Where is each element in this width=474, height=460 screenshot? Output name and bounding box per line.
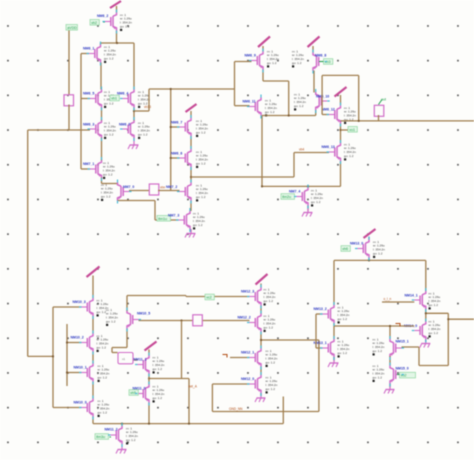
- svg-text:NM6_0: NM6_0: [119, 123, 130, 127]
- svg-text:go: 1.2: go: 1.2: [429, 303, 439, 307]
- wire: [129, 190, 149, 192]
- wire: [112, 352, 118, 354]
- wire: [212, 411, 319, 413]
- svg-text:vc2: vc2: [206, 296, 212, 300]
- net label net vc: [205, 294, 214, 300]
- wire: [118, 200, 156, 202]
- svg-text:go: 1.2: go: 1.2: [196, 195, 206, 199]
- wire: [212, 383, 249, 385]
- transistor NM13_2: [314, 305, 350, 324]
- wire: [67, 372, 82, 374]
- wire: [134, 359, 138, 361]
- net label out pin: [379, 98, 387, 105]
- transistor NM6_2: [97, 13, 132, 32]
- wire: [318, 340, 320, 412]
- svg-text:NM6_12: NM6_12: [322, 108, 335, 112]
- svg-text:NM6_1: NM6_1: [83, 47, 94, 51]
- wire: [191, 176, 294, 178]
- svg-text:NM7_4: NM7_4: [289, 190, 300, 194]
- wire: [116, 31, 118, 44]
- wire: [262, 185, 341, 187]
- wire: [307, 206, 309, 211]
- svg-text:GND_NN: GND_NN: [229, 407, 243, 411]
- wire: [101, 42, 135, 44]
- wire: [334, 325, 414, 327]
- svg-text:vb6: vb6: [342, 247, 348, 251]
- wire junction: [260, 339, 262, 341]
- wire: [171, 126, 180, 128]
- wire: [234, 62, 236, 106]
- wire: [260, 306, 262, 315]
- net label ibn3: [95, 434, 111, 440]
- wire: [263, 80, 289, 82]
- wire junction: [425, 312, 427, 314]
- wire: [111, 348, 113, 353]
- wire: [92, 352, 94, 364]
- wire: [340, 124, 342, 144]
- wire: [67, 342, 82, 344]
- power symbol vdd M3: [258, 37, 270, 52]
- wire: [230, 357, 250, 359]
- svg-text:go: 1.2: go: 1.2: [264, 326, 274, 330]
- net label vbp: [319, 59, 333, 65]
- svg-text:go: 1.2: go: 1.2: [97, 346, 107, 350]
- svg-text:NM12_0: NM12_0: [241, 377, 254, 381]
- wire junction: [288, 114, 290, 116]
- wire: [260, 367, 262, 376]
- svg-text:NM13_0: NM13_0: [350, 242, 363, 246]
- wire: [81, 168, 90, 170]
- wire: [315, 110, 317, 116]
- svg-text:go: 1.2: go: 1.2: [196, 162, 206, 166]
- svg-text:go: 1.2: go: 1.2: [98, 411, 108, 415]
- wire: [81, 98, 90, 100]
- svg-text:go: 1.2: go: 1.2: [264, 299, 274, 303]
- wire: [52, 307, 54, 408]
- svg-text:go: 1.2: go: 1.2: [292, 61, 302, 65]
- wire: [190, 167, 192, 183]
- wire: [425, 340, 427, 342]
- transistor NM6_12: [322, 106, 357, 125]
- svg-text:go: 1.2: go: 1.2: [311, 200, 321, 204]
- wire junction: [121, 423, 123, 425]
- wire: [358, 75, 360, 121]
- wire: [448, 318, 474, 320]
- wire: [447, 313, 449, 365]
- svg-text:NM6_9: NM6_9: [245, 54, 256, 58]
- svg-text:go: 1.2: go: 1.2: [373, 252, 383, 256]
- svg-text:go: 1.2: go: 1.2: [429, 331, 439, 335]
- wire: [139, 320, 193, 322]
- wire: [322, 74, 359, 76]
- wire: [81, 53, 89, 55]
- wire: [92, 316, 94, 334]
- wire: [148, 403, 150, 424]
- svg-text:ibn2u: ibn2u: [282, 195, 291, 199]
- wire: [235, 105, 250, 107]
- wire junction: [188, 423, 190, 425]
- svg-text:NM10_1: NM10_1: [74, 366, 87, 370]
- svg-text:vb2: vb2: [91, 21, 97, 25]
- transistor NM6_3: [83, 120, 116, 139]
- wire: [186, 296, 250, 298]
- wire: [148, 89, 150, 111]
- wire: [294, 152, 329, 154]
- svg-text:NM11_1: NM11_1: [134, 358, 147, 362]
- wire: [100, 63, 102, 90]
- power symbol vdd M5: [335, 87, 347, 105]
- transistor NM10_2: [71, 334, 109, 353]
- svg-text:go: 1.2: go: 1.2: [101, 195, 111, 199]
- wire: [389, 356, 391, 366]
- wire: [262, 70, 264, 82]
- svg-text:go: 1.2: go: 1.2: [153, 396, 163, 400]
- transistor NM12_3: [241, 287, 276, 305]
- wire junction: [170, 88, 172, 90]
- power symbol vdd M2: [186, 104, 197, 118]
- wire: [190, 201, 192, 212]
- svg-text:go: 1.2: go: 1.2: [126, 438, 136, 442]
- transistor pin stubs: [79, 10, 426, 448]
- transistor NM11_0: [133, 384, 165, 402]
- svg-text:NM13_2: NM13_2: [314, 307, 327, 311]
- wire junction: [190, 176, 192, 178]
- wire: [419, 365, 448, 367]
- wire: [316, 347, 323, 349]
- svg-text:vo1: vo1: [349, 128, 355, 132]
- wire: [321, 75, 323, 114]
- wire: [134, 110, 149, 112]
- wire junction: [66, 371, 68, 373]
- svg-text:go: 1.2: go: 1.2: [338, 317, 348, 321]
- svg-text:NM6_2: NM6_2: [97, 14, 108, 18]
- wire junction: [261, 185, 263, 187]
- wire: [203, 320, 250, 322]
- transistor NM11_2: [105, 426, 139, 445]
- svg-text:NM6_3: NM6_3: [83, 123, 94, 127]
- svg-text:NM10_5: NM10_5: [137, 312, 150, 316]
- wire junction: [447, 318, 449, 320]
- svg-text:NM15_1: NM15_1: [396, 340, 409, 344]
- svg-text:x1: x1: [122, 357, 126, 361]
- svg-text:o_l_n: o_l_n: [384, 297, 392, 301]
- svg-text:NM12_2: NM12_2: [238, 316, 251, 320]
- ground gnd3: [302, 206, 313, 217]
- svg-text:NM7_2: NM7_2: [166, 185, 177, 189]
- transistor NM15_1: [373, 337, 409, 357]
- svg-text:vb1: vb1: [111, 97, 117, 101]
- transistor NM6_6: [171, 149, 208, 168]
- transistor NM15_0: [373, 364, 409, 384]
- wire: [126, 329, 128, 348]
- svg-text:go: 1.2: go: 1.2: [373, 376, 383, 380]
- transistor NM13_1: [314, 339, 350, 358]
- svg-text:go: 1.2: go: 1.2: [265, 110, 275, 114]
- wire: [293, 153, 295, 178]
- wire: [322, 114, 329, 116]
- svg-text:NM12_3: NM12_3: [241, 290, 254, 294]
- transistor NM7_3: [168, 211, 205, 230]
- svg-text:go: 1.2: go: 1.2: [106, 320, 116, 324]
- wire: [170, 89, 172, 191]
- svg-text:go: 1.2: go: 1.2: [104, 102, 114, 106]
- wire: [261, 116, 263, 187]
- svg-text:go: 1.2: go: 1.2: [103, 173, 113, 177]
- wire: [53, 306, 82, 308]
- wire junction: [358, 120, 360, 122]
- wire junction: [170, 126, 172, 128]
- wire: [260, 332, 262, 349]
- transistor NM12_1: [241, 349, 278, 368]
- wire: [68, 31, 70, 95]
- wire: [368, 258, 370, 261]
- wire: [333, 260, 335, 305]
- wire junction: [307, 185, 309, 187]
- wire junction: [368, 259, 370, 261]
- svg-text:NM11_2: NM11_2: [105, 428, 118, 432]
- transistor NM6_5: [83, 90, 116, 109]
- svg-text:go: 1.2: go: 1.2: [104, 133, 114, 137]
- svg-text:NM7_0: NM7_0: [123, 185, 134, 189]
- wire: [27, 130, 29, 356]
- transistor NM14_0: [404, 319, 441, 339]
- ground gnd5: [384, 384, 395, 394]
- net label net vb1: [110, 95, 119, 101]
- transistor NM10_3: [73, 298, 109, 317]
- wire: [261, 339, 319, 341]
- svg-text:NM6_5: NM6_5: [83, 92, 94, 96]
- transistor NM7_0: [101, 183, 134, 202]
- wire junction: [66, 341, 68, 343]
- wire: [235, 61, 252, 63]
- wire junction: [133, 110, 135, 112]
- svg-text:go: 1.2: go: 1.2: [193, 223, 203, 227]
- ground gnd2: [185, 229, 196, 238]
- svg-text:NM10_0: NM10_0: [74, 401, 87, 405]
- transistor NM14_1: [405, 291, 441, 310]
- ground gnd9: [116, 444, 127, 454]
- svg-text:NM6_11: NM6_11: [243, 100, 256, 104]
- power symbol vdd M8: [256, 274, 268, 288]
- wire: [133, 43, 135, 90]
- svg-text:out: out: [381, 98, 386, 102]
- symbol box X1: [118, 353, 133, 364]
- svg-text:go: 1.2: go: 1.2: [338, 351, 348, 355]
- wire: [333, 357, 335, 361]
- wire junction: [389, 325, 391, 327]
- transistor NM6_11: [243, 98, 278, 117]
- transistor NM13_0: [350, 240, 385, 259]
- wire junction: [148, 423, 150, 425]
- svg-text:go: 1.2: go: 1.2: [138, 133, 148, 137]
- wire: [389, 384, 391, 388]
- svg-text:NM10_2: NM10_2: [71, 336, 84, 340]
- symbol S3: [374, 105, 384, 116]
- svg-text:go: 1.2: go: 1.2: [266, 387, 276, 391]
- wire: [190, 136, 192, 149]
- svg-text:go: 1.2: go: 1.2: [120, 25, 130, 29]
- wire: [316, 313, 323, 315]
- net label vb2: [90, 20, 105, 26]
- wire: [92, 417, 94, 424]
- wire: [126, 296, 128, 312]
- ground gnd6: [420, 340, 431, 348]
- wire: [154, 201, 156, 221]
- net label vo2: [397, 372, 416, 378]
- wire junction: [116, 42, 118, 44]
- wire: [307, 186, 309, 187]
- transistor NM12_2: [238, 314, 276, 333]
- wire: [133, 108, 135, 121]
- ground gnd1: [128, 138, 139, 150]
- symbol S2: [193, 315, 203, 326]
- transistor NM7_2: [166, 183, 208, 202]
- wire: [315, 314, 317, 348]
- net label hook1: [223, 355, 228, 358]
- wire: [66, 324, 68, 386]
- wire junction: [339, 129, 341, 131]
- transistor NM11_1: [134, 355, 165, 373]
- wire: [101, 138, 103, 161]
- wire: [418, 347, 420, 366]
- wire: [93, 423, 283, 425]
- svg-text:NM6_7: NM6_7: [171, 121, 182, 125]
- wire: [28, 129, 90, 131]
- wire: [288, 81, 290, 116]
- transistor NM10_1: [74, 364, 110, 383]
- transistor NM6_9: [245, 49, 280, 69]
- wire: [53, 407, 82, 409]
- net label ibn: [157, 216, 171, 222]
- svg-text:vbn: vbn: [160, 186, 165, 190]
- wire: [101, 178, 103, 184]
- svg-text:NM6_8: NM6_8: [315, 54, 326, 58]
- svg-text:go: 1.2: go: 1.2: [98, 376, 108, 380]
- wire: [341, 129, 349, 131]
- svg-text:go: 1.2: go: 1.2: [267, 61, 277, 65]
- svg-text:go: 1.2: go: 1.2: [153, 367, 163, 371]
- symbol S0: [64, 95, 74, 106]
- wire: [341, 120, 474, 122]
- power symbol vdd M9: [364, 229, 376, 240]
- svg-text:NM14_1: NM14_1: [405, 294, 418, 298]
- wire: [260, 393, 262, 396]
- wire: [28, 355, 53, 357]
- wire: [158, 190, 180, 192]
- svg-text:NM6_13: NM6_13: [322, 145, 335, 149]
- svg-text:go: 1.2: go: 1.2: [104, 57, 114, 61]
- wire: [121, 423, 123, 426]
- power symbol vdd M1: [110, 1, 121, 13]
- transistor NM6_13: [322, 142, 357, 161]
- transistor NM7_1: [83, 160, 115, 179]
- svg-text:go: 1.2: go: 1.2: [344, 154, 354, 158]
- wire: [425, 260, 427, 291]
- symbol S1: [149, 184, 159, 195]
- wire: [425, 309, 427, 322]
- wire: [378, 115, 380, 121]
- wire: [190, 229, 192, 232]
- wire: [389, 326, 391, 339]
- wire: [188, 379, 190, 424]
- wire: [334, 259, 426, 261]
- svg-text:go: 1.2: go: 1.2: [266, 361, 276, 365]
- wire: [148, 374, 150, 385]
- transistor NM10_0: [74, 399, 110, 418]
- svg-text:aVDD: aVDD: [67, 26, 77, 30]
- svg-text:NM15_0: NM15_0: [396, 367, 409, 371]
- transistor NM12_0: [241, 375, 278, 394]
- net label hook2: [396, 324, 401, 327]
- svg-text:NM12_1: NM12_1: [241, 351, 254, 355]
- svg-text:go: 1.2: go: 1.2: [294, 104, 304, 108]
- transistor NM6_10: [294, 92, 329, 111]
- svg-text:NM7_3: NM7_3: [168, 214, 179, 218]
- wire: [68, 105, 70, 131]
- ground gnd7: [255, 393, 266, 402]
- svg-text:go: 1.2: go: 1.2: [97, 310, 107, 314]
- transistor NM6_4: [117, 90, 150, 109]
- power symbol vdd M7: [145, 342, 157, 356]
- power symbol vdd M6: [87, 267, 100, 299]
- wire: [382, 301, 414, 303]
- wire: [101, 108, 103, 121]
- wire: [282, 397, 284, 424]
- net label vb5: [129, 390, 138, 396]
- wire: [171, 157, 180, 159]
- transistor NM6_1: [83, 45, 116, 64]
- wire: [100, 43, 102, 45]
- svg-text:ibn3u: ibn3u: [96, 435, 105, 439]
- net label vb6: [341, 246, 358, 252]
- svg-text:go: 1.2: go: 1.2: [196, 131, 206, 135]
- wire junction: [180, 319, 182, 321]
- wire: [333, 323, 335, 339]
- transistor NM6_7: [171, 118, 208, 137]
- wire junction: [170, 157, 172, 159]
- transistor NM10_5: [106, 308, 150, 329]
- wire: [149, 378, 189, 380]
- svg-text:NM7_1: NM7_1: [83, 162, 94, 166]
- wire: [426, 312, 449, 314]
- wire: [313, 71, 315, 93]
- ground gnd4: [328, 357, 339, 367]
- transistor NM6_8: [292, 49, 326, 70]
- svg-text:net_A: net_A: [189, 384, 198, 388]
- transistor NM6_0: [119, 120, 150, 139]
- wire junction: [148, 377, 150, 379]
- wire: [92, 382, 94, 399]
- svg-text:NM10_3: NM10_3: [73, 300, 86, 304]
- svg-text:NM6_6: NM6_6: [171, 152, 182, 156]
- wire: [80, 54, 82, 170]
- net label ibn2: [281, 194, 297, 200]
- wire: [155, 219, 179, 221]
- svg-text:vb4: vb4: [299, 148, 304, 152]
- wire: [185, 296, 187, 297]
- wire: [112, 347, 127, 349]
- power symbol vdd M4: [308, 37, 320, 53]
- wire: [211, 384, 213, 412]
- wire: [127, 295, 186, 297]
- wire: [402, 346, 420, 348]
- net label net vout1: [348, 127, 357, 133]
- wire: [149, 88, 235, 90]
- svg-text:vb13: vb13: [144, 105, 151, 109]
- wire: [102, 183, 118, 185]
- svg-text:go: 1.2: go: 1.2: [373, 349, 383, 353]
- net label aVDD: [66, 25, 77, 31]
